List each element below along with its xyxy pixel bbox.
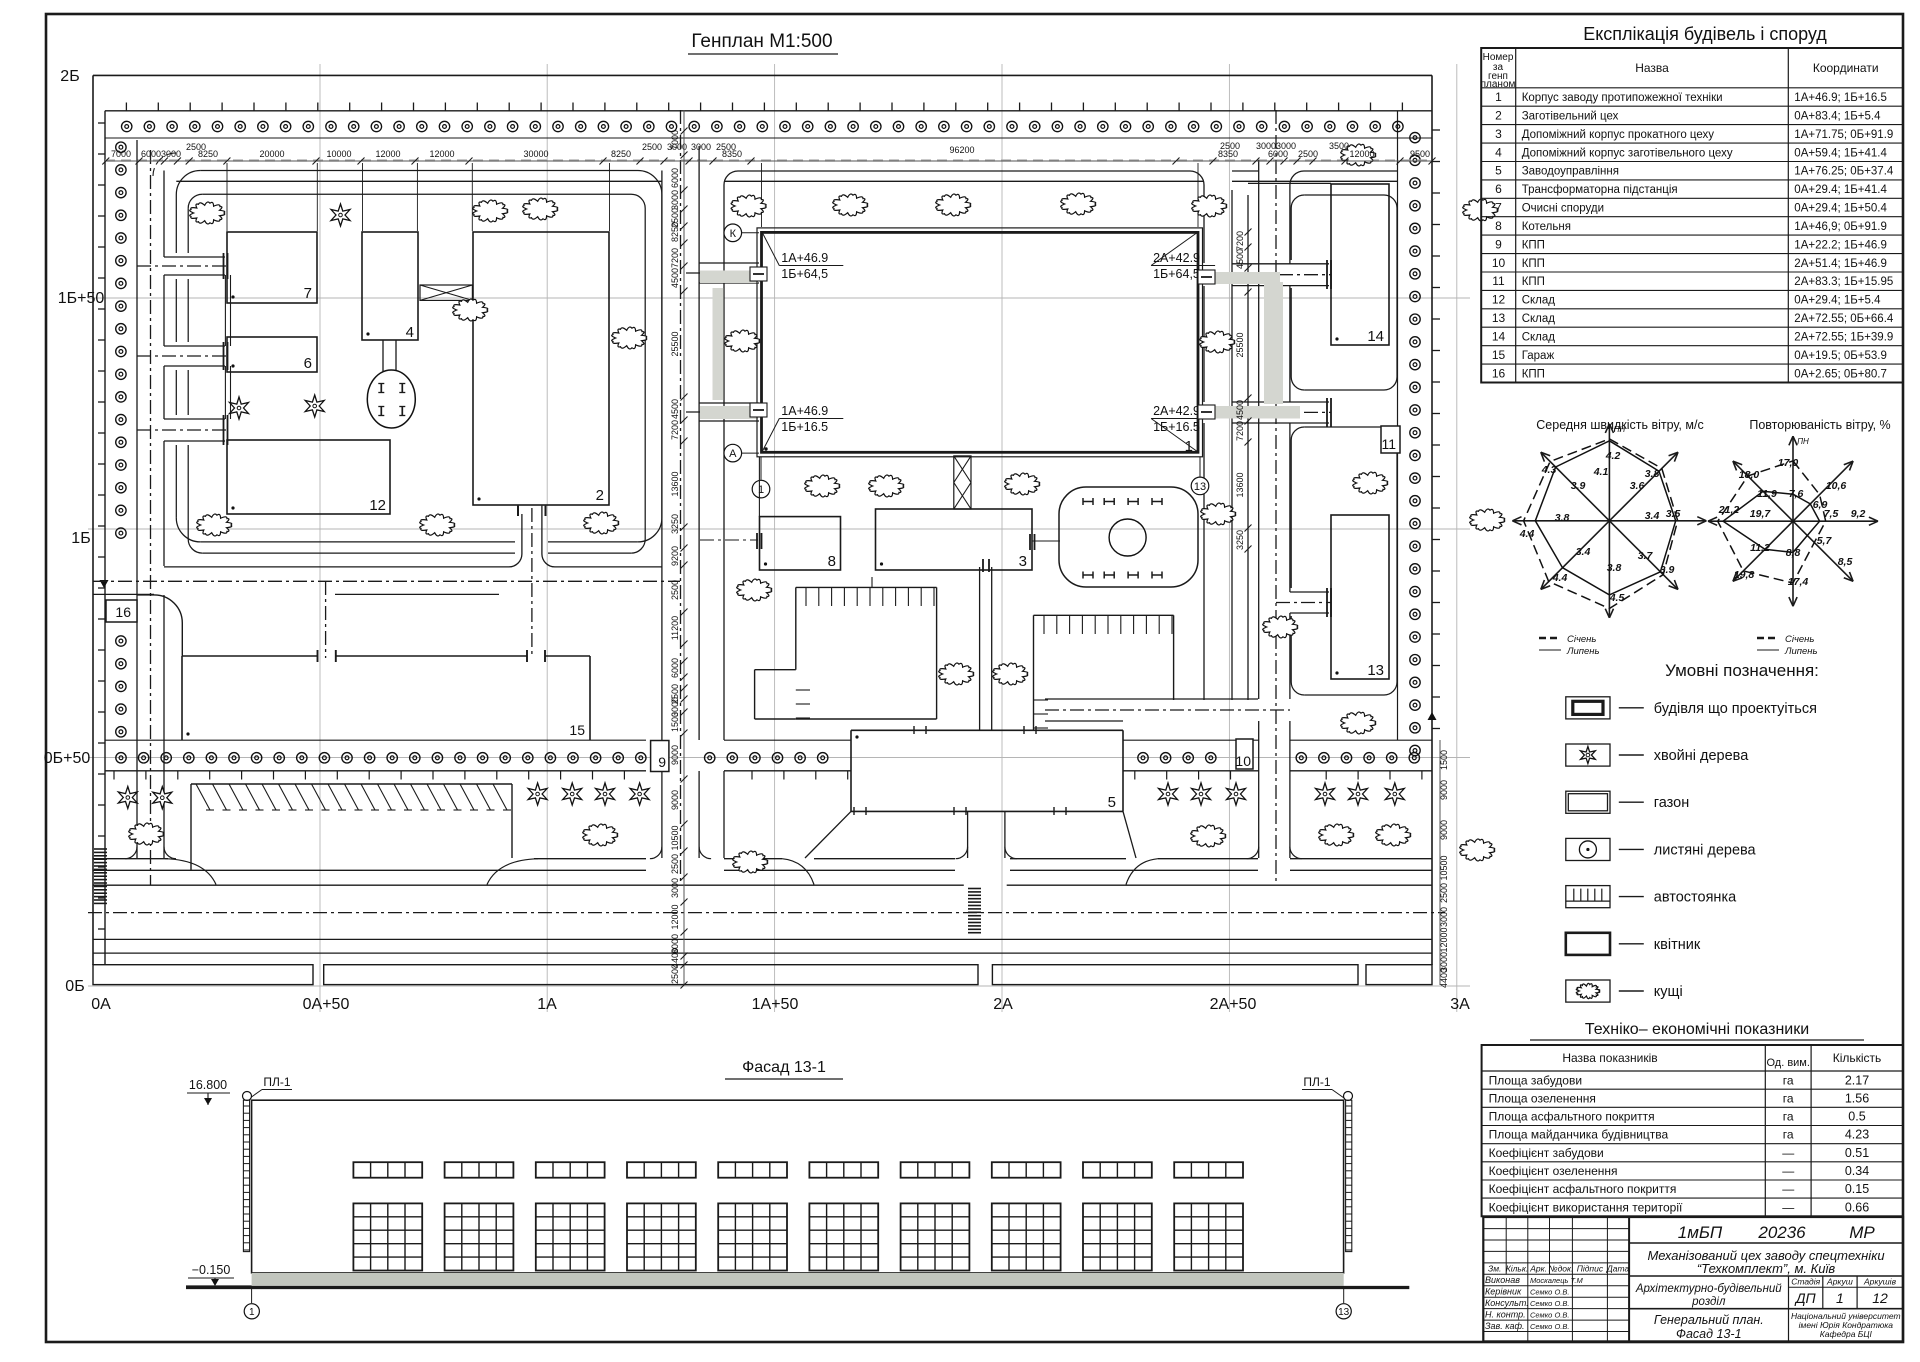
svg-text:7,5: 7,5: [1824, 508, 1839, 520]
svg-text:9,2: 9,2: [1851, 508, 1866, 520]
benchmark triangles: [100, 580, 109, 588]
svg-text:7200: 7200: [1235, 421, 1245, 441]
svg-text:8250: 8250: [611, 149, 631, 159]
svg-text:КПП: КПП: [1522, 258, 1545, 270]
svg-text:8: 8: [1495, 219, 1502, 233]
svg-text:0А+29.4; 1Б+5.4: 0А+29.4; 1Б+5.4: [1794, 295, 1881, 307]
svg-text:14: 14: [1492, 330, 1506, 344]
svg-text:3.6: 3.6: [1630, 480, 1645, 492]
svg-text:1: 1: [1836, 1290, 1844, 1306]
svg-text:Генплан М1:500: Генплан М1:500: [691, 31, 832, 52]
svg-text:12: 12: [369, 497, 386, 514]
svg-text:6000: 6000: [141, 149, 161, 159]
svg-text:3.9: 3.9: [1571, 480, 1586, 492]
svg-text:Корпус заводу протипожежної те: Корпус заводу протипожежної техніки: [1522, 92, 1723, 104]
east stubs: [1232, 263, 1329, 265]
legend flowerbed symbol: [1566, 933, 1610, 955]
svg-text:1Б+64,5: 1Б+64,5: [1153, 267, 1200, 281]
svg-text:0Б+50: 0Б+50: [44, 750, 91, 767]
svg-text:4.2: 4.2: [1605, 450, 1621, 462]
svg-text:1Б+16.5: 1Б+16.5: [781, 420, 828, 434]
svg-text:планом: планом: [1481, 79, 1516, 90]
svg-text:1А+46.9: 1А+46.9: [781, 404, 828, 418]
svg-text:3.8: 3.8: [1555, 512, 1570, 524]
svg-text:1500: 1500: [1439, 750, 1449, 770]
svg-text:Котельня: Котельня: [1522, 221, 1571, 233]
building 2: [473, 232, 609, 505]
svg-text:3000: 3000: [1439, 907, 1449, 927]
svg-text:7200: 7200: [1235, 231, 1245, 251]
svg-text:—: —: [1782, 1146, 1794, 1160]
svg-text:12: 12: [1492, 293, 1506, 307]
axis grid lines: [319, 64, 321, 1012]
svg-text:Керівник: Керівник: [1485, 1287, 1522, 1297]
svg-text:Склад: Склад: [1522, 313, 1556, 325]
dimension witness lines: [226, 163, 228, 231]
window group 9: [1083, 1162, 1152, 1178]
stub road to building 12: [164, 418, 225, 420]
svg-text:10500: 10500: [1439, 855, 1449, 880]
svg-text:1: 1: [1495, 90, 1502, 104]
legend deciduous symbol: [1566, 838, 1610, 860]
svg-text:Назва показників: Назва показників: [1562, 1051, 1657, 1065]
svg-text:17,4: 17,4: [1788, 576, 1809, 588]
svg-text:2Б: 2Б: [60, 68, 79, 85]
svg-text:6000: 6000: [670, 658, 680, 678]
svg-text:7000: 7000: [670, 130, 680, 150]
svg-text:ПН: ПН: [1614, 425, 1626, 434]
svg-text:9200: 9200: [670, 546, 680, 566]
circled axis 13: [1191, 477, 1209, 495]
svg-text:6: 6: [304, 355, 312, 372]
svg-text:листяні дерева: листяні дерева: [1654, 842, 1757, 858]
svg-text:13: 13: [1367, 662, 1384, 679]
fence right: [1397, 111, 1399, 740]
svg-text:будівля що проектуіться: будівля що проектуіться: [1654, 701, 1817, 717]
svg-text:Семко О.В.: Семко О.В.: [1530, 1322, 1569, 1331]
building 5: [851, 729, 1123, 731]
svg-text:Площа асфальтного покриття: Площа асфальтного покриття: [1489, 1110, 1655, 1124]
svg-text:19,7: 19,7: [1750, 508, 1772, 520]
svg-text:2500: 2500: [1439, 883, 1449, 903]
west stubs to building 1: [699, 262, 759, 264]
svg-text:0.15: 0.15: [1845, 1182, 1869, 1196]
svg-text:11: 11: [1492, 274, 1505, 288]
svg-text:4.5: 4.5: [1609, 592, 1625, 604]
svg-text:0А+2.65; 0Б+80.7: 0А+2.65; 0Б+80.7: [1794, 368, 1887, 380]
svg-text:2: 2: [1495, 109, 1502, 123]
bushes: [190, 202, 225, 224]
svg-text:16: 16: [115, 604, 131, 620]
road at 2А from building 3 to plaza and bottom: [979, 567, 981, 730]
svg-text:25500: 25500: [670, 331, 680, 356]
svg-text:7200: 7200: [670, 248, 680, 268]
circled axis 1: [752, 480, 770, 498]
svg-text:6000: 6000: [670, 168, 680, 188]
svg-text:9500: 9500: [1410, 149, 1430, 159]
facade wall: [252, 1100, 1344, 1273]
svg-text:2А+42.9: 2А+42.9: [1153, 404, 1200, 418]
building 14: [1331, 184, 1389, 345]
svg-text:2А+72.55; 0Б+66.4: 2А+72.55; 0Б+66.4: [1794, 313, 1894, 325]
wind rose right (recurrence): [1792, 436, 1794, 521]
svg-text:1500: 1500: [670, 712, 680, 732]
svg-text:Умовні позначення:: Умовні позначення:: [1665, 661, 1819, 680]
svg-text:0А+19.5; 0Б+53.9: 0А+19.5; 0Б+53.9: [1794, 350, 1887, 362]
svg-text:10: 10: [1235, 753, 1251, 769]
svg-text:Січень: Січень: [1567, 634, 1596, 645]
X-brace gate top: [420, 285, 472, 300]
svg-text:3.9: 3.9: [1660, 564, 1675, 576]
window group 8: [992, 1162, 1061, 1178]
svg-text:8350: 8350: [722, 149, 742, 159]
svg-text:хвойні дерева: хвойні дерева: [1654, 748, 1749, 764]
svg-text:Дата: Дата: [1606, 1264, 1630, 1274]
svg-text:14: 14: [1367, 328, 1384, 345]
svg-text:3А: 3А: [1450, 996, 1470, 1013]
svg-text:10000: 10000: [326, 149, 351, 159]
svg-text:3250: 3250: [1235, 530, 1245, 550]
road at 1Б: [93, 580, 680, 582]
svg-text:А: А: [729, 448, 737, 460]
0Б+50 tree row: [105, 739, 646, 741]
svg-text:20236: 20236: [1757, 1223, 1806, 1242]
svg-text:—: —: [1782, 1200, 1794, 1214]
svg-text:квітник: квітник: [1654, 937, 1701, 953]
svg-text:Склад: Склад: [1522, 295, 1556, 307]
svg-text:1Б+50: 1Б+50: [58, 290, 105, 307]
svg-text:−0.150: −0.150: [192, 1263, 231, 1277]
svg-text:7200: 7200: [670, 420, 680, 440]
svg-text:13: 13: [1492, 311, 1506, 325]
svg-text:8250: 8250: [670, 222, 680, 242]
svg-text:Аркушів: Аркушів: [1863, 1277, 1897, 1287]
svg-text:Заводоуправління: Заводоуправління: [1522, 166, 1619, 178]
legend parking symbol: [1566, 886, 1610, 908]
svg-text:1А+71.75; 0Б+91.9: 1А+71.75; 0Б+91.9: [1794, 129, 1893, 141]
svg-text:3.5: 3.5: [1666, 508, 1681, 520]
svg-text:0А+29.4; 1Б+41.4: 0А+29.4; 1Б+41.4: [1794, 184, 1887, 196]
svg-text:8,8: 8,8: [1786, 547, 1801, 559]
svg-text:Кількість: Кількість: [1833, 1051, 1882, 1065]
svg-text:2500: 2500: [670, 580, 680, 600]
svg-text:12000: 12000: [670, 904, 680, 929]
legend building symbol: [1566, 697, 1610, 719]
svg-text:11: 11: [1381, 436, 1396, 452]
svg-text:га: га: [1783, 1073, 1794, 1087]
svg-text:0А+59.4; 1Б+41.4: 0А+59.4; 1Б+41.4: [1794, 147, 1887, 159]
svg-text:0А+50: 0А+50: [303, 996, 350, 1013]
building 1 (main): [757, 228, 1203, 457]
svg-text:—: —: [1782, 1182, 1794, 1196]
svg-text:3000: 3000: [670, 878, 680, 898]
svg-text:10500: 10500: [670, 825, 680, 850]
zebra crossing central: [968, 888, 981, 890]
svg-text:4500: 4500: [670, 399, 680, 419]
building 3 gate stub: [1032, 540, 1060, 542]
svg-text:КПП: КПП: [1522, 368, 1545, 380]
svg-text:ПН: ПН: [1797, 437, 1809, 446]
svg-text:4.1: 4.1: [1593, 466, 1609, 478]
svg-text:12000: 12000: [375, 149, 400, 159]
svg-text:96200: 96200: [949, 145, 974, 155]
svg-text:Н. контр.: Н. контр.: [1485, 1309, 1526, 1319]
legend lawn symbol: [1566, 791, 1610, 813]
zebra crossing left: [94, 848, 107, 850]
svg-text:0.51: 0.51: [1845, 1146, 1869, 1160]
building 13: [1331, 515, 1389, 679]
svg-text:Допоміжний корпус прокатного ц: Допоміжний корпус прокатного цеху: [1522, 129, 1715, 141]
svg-text:Очисні споруди: Очисні споруди: [1522, 203, 1604, 215]
svg-text:Гараж: Гараж: [1522, 350, 1555, 362]
svg-text:1А+76.25; 0Б+37.4: 1А+76.25; 0Б+37.4: [1794, 166, 1894, 178]
svg-text:3.8: 3.8: [1645, 468, 1660, 480]
block edge below building 1: [758, 457, 760, 517]
pond: [1059, 487, 1198, 587]
svg-text:КПП: КПП: [1522, 276, 1545, 288]
svg-text:Фасад 13-1: Фасад 13-1: [1676, 1327, 1742, 1341]
svg-text:9000: 9000: [1439, 820, 1449, 840]
svg-text:15: 15: [1492, 348, 1506, 362]
window group 1: [353, 1162, 422, 1178]
svg-text:1: 1: [249, 1307, 255, 1318]
facade axis circles: [251, 1289, 253, 1303]
svg-text:18,0: 18,0: [1739, 469, 1760, 481]
svg-text:3.4: 3.4: [1576, 546, 1591, 558]
svg-text:Виконав: Виконав: [1485, 1275, 1520, 1285]
svg-text:Архітектурно-будівельний: Архітектурно-будівельний: [1635, 1283, 1782, 1295]
rose legend left: [1539, 637, 1561, 639]
svg-text:Арк.: Арк.: [1529, 1264, 1547, 1274]
fence top: [105, 110, 1432, 112]
building 15: [182, 655, 318, 657]
svg-text:Стадія: Стадія: [1791, 1277, 1820, 1287]
building 8: [760, 517, 841, 570]
svg-text:0А: 0А: [91, 996, 111, 1013]
svg-text:2500: 2500: [1220, 141, 1240, 151]
svg-text:Підпис: Підпис: [1577, 1264, 1604, 1274]
svg-text:Семко О.В.: Семко О.В.: [1530, 1310, 1569, 1319]
svg-text:20000: 20000: [259, 149, 284, 159]
building 16: [106, 600, 137, 622]
svg-text:Кафедра БЦІ: Кафедра БЦІ: [1820, 1329, 1873, 1339]
building 3: [876, 509, 1033, 570]
building 6: [227, 337, 317, 372]
svg-text:Москалець Т.М: Москалець Т.М: [1530, 1276, 1584, 1285]
svg-text:Зм.: Зм.: [1488, 1264, 1501, 1274]
rose legend right: [1757, 637, 1779, 639]
block A inner line: [202, 194, 645, 553]
building 4: [362, 232, 418, 340]
svg-text:5,7: 5,7: [1817, 535, 1833, 547]
svg-text:2А+83.3; 1Б+15.95: 2А+83.3; 1Б+15.95: [1794, 276, 1893, 288]
svg-text:4500: 4500: [1235, 249, 1245, 269]
svg-text:3.4: 3.4: [1645, 510, 1660, 522]
svg-text:5: 5: [1108, 794, 1116, 811]
stub road to building 6: [164, 345, 225, 347]
svg-text:30000: 30000: [523, 149, 548, 159]
window group 10: [1174, 1162, 1243, 1178]
svg-text:Експлікація будівель і спор: Експлікація будівель і споруд: [1583, 24, 1827, 44]
svg-text:13600: 13600: [670, 471, 680, 496]
svg-text:0.66: 0.66: [1845, 1200, 1869, 1214]
right tree column: [1410, 132, 1420, 142]
explication table: [1481, 48, 1903, 383]
svg-text:Трансформаторна підстанція: Трансформаторна підстанція: [1522, 184, 1678, 196]
right margin dimension chain: [1439, 740, 1441, 985]
svg-text:2А+42.9: 2А+42.9: [1153, 251, 1200, 265]
svg-text:газон: газон: [1654, 795, 1689, 811]
svg-text:—: —: [1782, 1164, 1794, 1178]
svg-text:2500: 2500: [642, 142, 662, 152]
svg-text:ДП: ДП: [1794, 1290, 1817, 1306]
title block: [1483, 1217, 1903, 1341]
svg-text:13600: 13600: [1235, 472, 1245, 497]
block 14 outline: [1304, 195, 1397, 390]
svg-text:Кільк.: Кільк.: [1506, 1264, 1529, 1274]
svg-text:4: 4: [406, 324, 414, 341]
wind rose left (speed): [1608, 424, 1610, 521]
svg-text:1Б+16.5: 1Б+16.5: [1153, 420, 1200, 434]
ground line: [186, 1286, 1409, 1289]
building 10: [1236, 739, 1253, 769]
svg-text:Техніко– економічні показники: Техніко– економічні показники: [1585, 1021, 1809, 1038]
svg-text:2500: 2500: [670, 854, 680, 874]
svg-text:13: 13: [1338, 1307, 1350, 1318]
dashed corner arc top-left: [153, 153, 176, 176]
east road V4: [1203, 190, 1205, 263]
svg-text:5: 5: [1495, 164, 1502, 178]
svg-text:1: 1: [1185, 438, 1193, 455]
svg-text:га: га: [1783, 1110, 1794, 1124]
legend conifer symbol: [1566, 744, 1610, 766]
svg-text:3250: 3250: [670, 514, 680, 534]
svg-text:3000: 3000: [161, 149, 181, 159]
building 7: [227, 232, 317, 303]
stub road to building 7: [164, 256, 225, 258]
bottom strip: [93, 965, 313, 985]
window group 5: [718, 1162, 787, 1178]
window group 6: [809, 1162, 878, 1178]
svg-text:9: 9: [1495, 237, 1502, 251]
svg-text:1.56: 1.56: [1845, 1091, 1869, 1105]
path between 12 and 2: [164, 514, 522, 567]
svg-text:Семко О.В.: Семко О.В.: [1530, 1299, 1569, 1308]
legend bush symbol: [1566, 980, 1610, 1002]
svg-text:1Б: 1Б: [71, 530, 90, 547]
svg-text:4.23: 4.23: [1845, 1128, 1869, 1142]
garage yard fence: [137, 595, 183, 656]
svg-text:16.800: 16.800: [189, 1078, 227, 1092]
svg-text:га: га: [1783, 1091, 1794, 1105]
building 12: [227, 440, 390, 514]
svg-text:6000: 6000: [1268, 149, 1288, 159]
svg-text:№док.: №док.: [1548, 1264, 1573, 1274]
svg-text:9: 9: [658, 754, 666, 770]
facade plinth: [252, 1273, 1344, 1286]
svg-text:2А+51.4; 1Б+46.9: 2А+51.4; 1Б+46.9: [1794, 258, 1887, 270]
svg-text:1А+46,9; 0Б+91.9: 1А+46,9; 0Б+91.9: [1794, 221, 1887, 233]
svg-text:Коефіцієнт озеленення: Коефіцієнт озеленення: [1489, 1164, 1618, 1178]
east road V5: [1258, 160, 1260, 699]
svg-text:Коефіцієнт використання тери: Коефіцієнт використання території: [1489, 1200, 1683, 1214]
left tree column: [116, 142, 126, 152]
svg-text:2А+72.55; 1Б+39.9: 2А+72.55; 1Б+39.9: [1794, 332, 1893, 344]
svg-text:8,5: 8,5: [1838, 556, 1853, 568]
svg-text:КПП: КПП: [1522, 239, 1545, 251]
svg-text:3.7: 3.7: [1638, 550, 1654, 562]
building 11: [1381, 426, 1400, 453]
svg-text:7: 7: [304, 285, 312, 302]
driveway aprons: [165, 859, 216, 885]
svg-text:Коефіцієнт асфальтного покри: Коефіцієнт асфальтного покриття: [1489, 1182, 1677, 1196]
svg-text:Допоміжний корпус заготівельно: Допоміжний корпус заготівельного цеху: [1522, 147, 1733, 159]
svg-text:4.4: 4.4: [1552, 572, 1568, 584]
svg-text:16: 16: [1492, 366, 1506, 380]
svg-text:7000: 7000: [111, 149, 131, 159]
svg-text:автостоянка: автостоянка: [1654, 890, 1737, 906]
svg-text:ПЛ-1: ПЛ-1: [1303, 1075, 1330, 1089]
svg-text:Липень: Липень: [1784, 646, 1818, 657]
svg-text:3500: 3500: [1329, 141, 1349, 151]
svg-text:10,6: 10,6: [1826, 480, 1847, 492]
svg-text:4: 4: [1495, 145, 1502, 159]
svg-text:6: 6: [1495, 182, 1502, 196]
fence left: [104, 111, 106, 965]
svg-text:12000: 12000: [429, 149, 454, 159]
svg-text:Аркуш: Аркуш: [1826, 1277, 1853, 1287]
block A outline: [200, 171, 662, 542]
svg-text:13: 13: [1194, 481, 1206, 493]
svg-text:12000: 12000: [1349, 149, 1374, 159]
X-brace below building 1: [954, 456, 971, 509]
svg-text:0.34: 0.34: [1845, 1164, 1869, 1178]
svg-text:7,6: 7,6: [1789, 488, 1804, 500]
svg-text:Січень: Січень: [1785, 634, 1814, 645]
window group 7: [901, 1162, 970, 1178]
svg-text:4400: 4400: [1439, 968, 1449, 988]
building 8 gate stub: [700, 539, 758, 541]
svg-text:2.17: 2.17: [1845, 1073, 1869, 1087]
svg-text:0.5: 0.5: [1848, 1110, 1865, 1124]
svg-text:Семко О.В.: Семко О.В.: [1530, 1288, 1569, 1297]
hatched parking: [191, 783, 512, 785]
top tree band: [105, 137, 1432, 139]
central vertical dimension chain: [683, 110, 685, 985]
svg-text:Зав. каф.: Зав. каф.: [1485, 1321, 1525, 1331]
svg-text:9000: 9000: [670, 745, 680, 765]
svg-text:4500: 4500: [1235, 400, 1245, 420]
svg-text:1А+22.2; 1Б+46.9: 1А+22.2; 1Б+46.9: [1794, 239, 1887, 251]
junction arcs: [125, 847, 137, 859]
conifer stars: [331, 204, 350, 226]
downpipe right: [1344, 1092, 1353, 1101]
svg-text:Склад: Склад: [1522, 332, 1556, 344]
svg-text:1мБП: 1мБП: [1678, 1223, 1723, 1242]
svg-text:3: 3: [1495, 127, 1502, 141]
svg-text:Генеральний план.: Генеральний план.: [1654, 1313, 1764, 1327]
block 13 outline: [1304, 427, 1397, 695]
svg-text:Площа майданчика будівництва: Площа майданчика будівництва: [1489, 1128, 1669, 1142]
svg-text:19,8: 19,8: [1734, 569, 1755, 581]
svg-text:9000: 9000: [1439, 780, 1449, 800]
svg-text:9000: 9000: [670, 790, 680, 810]
svg-text:3.8: 3.8: [1607, 562, 1622, 574]
comb rack right: [1034, 614, 1174, 616]
svg-text:0А+29.4; 1Б+50.4: 0А+29.4; 1Б+50.4: [1794, 203, 1887, 215]
svg-text:1А+46.9; 1Б+16.5: 1А+46.9; 1Б+16.5: [1794, 92, 1887, 104]
top dimension line: [105, 160, 1432, 162]
